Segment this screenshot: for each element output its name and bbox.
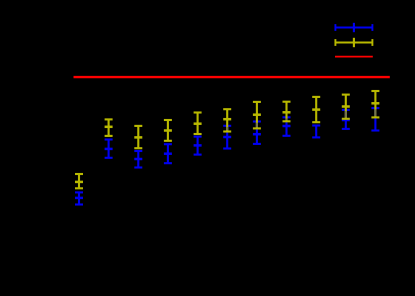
errorbar yellow point 6: vertical line [226,109,228,131]
errorbar yellow point 11: center marker [371,102,379,105]
errorbar yellow point 10: bottom cap [342,118,350,120]
errorbar blue point 2: center marker [105,148,113,151]
errorbar yellow point 6: top cap [223,108,231,110]
errorbar blue point 6: top cap [223,125,231,127]
errorbar yellow point 1: vertical line [78,174,80,188]
errorbar yellow point 5: vertical line [197,113,199,135]
errorbar yellow point 10: top cap [342,94,350,96]
errorbar blue point 10: center marker [342,119,350,122]
legend yellow errorbar entry: right cap [371,39,373,46]
errorbar blue point 9: top cap [312,124,320,126]
errorbar blue point 1: center marker [75,197,83,200]
errorbar yellow point 10: vertical line [345,95,347,119]
errorbar yellow point 5: center marker [194,122,202,125]
legend blue errorbar entry: right cap [371,24,373,31]
legend yellow errorbar entry: left cap [334,39,336,46]
errorbar blue point 1: bottom cap [75,203,83,205]
errorbar blue point 4: bottom cap [164,162,172,164]
errorbar yellow point 2: bottom cap [105,135,113,137]
overlap blend segment P7 [256,123,258,128]
errorbar blue point 2: vertical line [108,140,110,158]
errorbar blue point 6: center marker [223,136,231,139]
legend blue errorbar entry: left cap [334,24,336,31]
errorbar blue point 3: bottom cap [134,166,142,168]
errorbar yellow point 4: bottom cap [164,140,172,142]
errorbar yellow point 4: center marker [164,129,172,132]
errorbar blue point 8: bottom cap [283,135,291,137]
errorbar blue point 5: vertical line [197,137,199,155]
errorbar blue point 1: vertical line [78,192,80,204]
errorbar yellow point 4: vertical line [167,120,169,141]
errorbar blue point 4: center marker [164,152,172,155]
errorbar yellow point 7: vertical line [256,102,258,128]
errorbar blue point 1: top cap [75,191,83,193]
errorbar blue point 11: top cap [371,107,379,109]
overlap blend segment P11 [374,109,376,116]
errorbar yellow point 8: top cap [283,101,291,103]
errorbar blue point 3: top cap [134,150,142,152]
errorbar yellow point 3: top cap [134,125,142,127]
errorbar blue point 7: bottom cap [253,143,261,145]
errorbar yellow point 6: bottom cap [223,130,231,132]
errorbar yellow point 4: top cap [164,119,172,121]
errorbar yellow point 8: vertical line [285,102,287,122]
errorbar yellow point 7: center marker [253,113,261,116]
legend yellow errorbar entry: center tick [353,38,355,47]
errorbar blue point 8: center marker [283,125,291,128]
red threshold line [74,76,390,78]
errorbar yellow point 9: center marker [312,108,320,111]
legend red line entry [335,56,373,58]
errorbar blue point 8: top cap [283,116,291,118]
errorbar yellow point 7: bottom cap [253,127,261,129]
errorbar yellow point 10: center marker [342,105,350,108]
errorbar blue point 2: bottom cap [105,157,113,159]
overlap blend segment P6 [226,127,228,130]
errorbar yellow point 11: top cap [371,90,379,92]
errorbar yellow point 9: bottom cap [312,121,320,123]
errorbar yellow point 8: center marker [283,111,291,114]
errorbar blue point 5: top cap [194,136,202,138]
errorbar blue point 5: center marker [194,144,202,147]
errorbar yellow point 2: top cap [105,118,113,120]
errorbar yellow point 2: center marker [105,126,113,129]
errorbar yellow point 9: top cap [312,96,320,98]
overlap blend segment P10 [345,111,347,118]
errorbar blue point 7: vertical line [256,122,258,144]
errorbar blue point 5: bottom cap [194,154,202,156]
errorbar blue point 4: vertical line [167,144,169,163]
errorbar blue point 2: top cap [105,138,113,140]
errorbar yellow point 5: bottom cap [194,133,202,135]
errorbar yellow point 1: top cap [75,173,83,175]
errorbar yellow point 11: bottom cap [371,116,379,118]
errorbar blue point 6: vertical line [226,126,228,149]
errorbar blue point 8: vertical line [285,117,287,136]
errorbar blue point 9: vertical line [315,126,317,138]
errorbar yellow point 7: top cap [253,101,261,103]
errorbar blue point 9: bottom cap [312,136,320,138]
errorbar yellow point 3: bottom cap [134,147,142,149]
errorbar blue point 3: center marker [134,158,142,161]
errorbar blue point 6: bottom cap [223,147,231,149]
errorbar blue point 10: vertical line [345,110,347,129]
errorbar yellow point 5: top cap [194,111,202,113]
errorbar yellow point 2: vertical line [108,119,110,135]
errorbar blue point 4: top cap [164,143,172,145]
errorbar blue point 11: vertical line [374,108,376,130]
errorbar yellow point 9: vertical line [315,97,317,122]
errorbar blue point 11: bottom cap [371,129,379,131]
legend blue errorbar entry: center tick [353,23,355,32]
errorbar yellow point 3: vertical line [137,126,139,148]
legend blue errorbar entry: line [335,27,373,29]
errorbar blue point 7: top cap [253,120,261,122]
errorbar yellow point 6: center marker [223,118,231,121]
errorbar yellow point 1: bottom cap [75,187,83,189]
errorbar yellow point 3: center marker [134,136,142,139]
errorbar yellow point 1: center marker [75,181,83,184]
errorbar blue point 3: vertical line [137,151,139,168]
legend yellow errorbar entry: line [335,42,373,44]
errorbar yellow point 8: bottom cap [283,120,291,122]
errorbar yellow point 11: vertical line [374,91,376,117]
errorbar blue point 7: center marker [253,133,261,136]
errorbar blue point 10: bottom cap [342,128,350,130]
overlap blend segment P8 [285,119,287,121]
errorbar blue point 10: top cap [342,109,350,111]
